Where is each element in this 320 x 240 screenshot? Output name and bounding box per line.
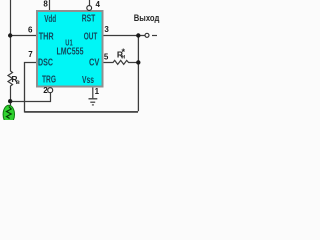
svg-text:DSC: DSC <box>38 58 53 69</box>
svg-text:Выход: Выход <box>134 13 160 23</box>
svg-text:8: 8 <box>43 0 48 8</box>
svg-text:TRG: TRG <box>42 74 56 85</box>
svg-text:3: 3 <box>104 25 109 34</box>
svg-text:в: в <box>16 79 20 86</box>
svg-text:6: 6 <box>28 26 33 35</box>
svg-text:THR: THR <box>39 32 55 43</box>
svg-text:CV: CV <box>89 57 100 68</box>
svg-text:7: 7 <box>28 50 33 59</box>
svg-text:*: * <box>122 47 126 57</box>
svg-text:OUT: OUT <box>84 32 98 43</box>
svg-text:5: 5 <box>104 53 109 62</box>
svg-text:1: 1 <box>95 87 100 96</box>
svg-text:Vdd: Vdd <box>44 14 56 25</box>
svg-text:RST: RST <box>82 13 96 24</box>
svg-text:2: 2 <box>43 86 48 95</box>
svg-text:4: 4 <box>96 0 101 9</box>
svg-text:LMC555: LMC555 <box>57 46 84 57</box>
svg-text:Vss: Vss <box>82 75 94 86</box>
